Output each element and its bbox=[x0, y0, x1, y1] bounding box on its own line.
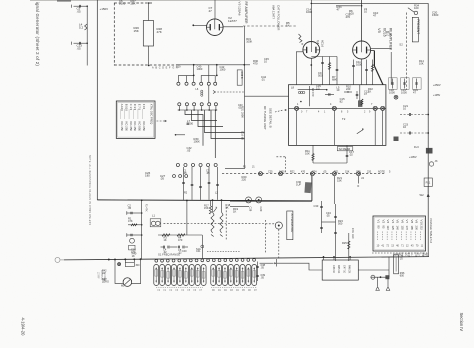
svg-text:100K: 100K bbox=[194, 140, 201, 144]
svg-text:1000: 1000 bbox=[306, 10, 313, 14]
svg-text:470: 470 bbox=[178, 239, 183, 242]
svg-text:C47 10: C47 10 bbox=[342, 265, 345, 274]
svg-text:10: 10 bbox=[403, 125, 407, 129]
svg-text:1000: 1000 bbox=[401, 91, 407, 95]
svg-text:V5: V5 bbox=[377, 28, 382, 34]
svg-text:+250V: +250V bbox=[433, 83, 441, 87]
svg-text:V10: V10 bbox=[419, 220, 423, 226]
svg-text:170: 170 bbox=[405, 226, 409, 231]
svg-text:10K: 10K bbox=[305, 152, 310, 156]
svg-text:J2 RF: J2 RF bbox=[97, 272, 100, 279]
svg-text:125: 125 bbox=[391, 226, 395, 231]
svg-text:1000: 1000 bbox=[389, 91, 395, 95]
svg-text:ignal Generator (Sheet 2 of 2): ignal Generator (Sheet 2 of 2) bbox=[35, 2, 40, 67]
svg-text:47K: 47K bbox=[128, 219, 133, 223]
svg-text:R25: R25 bbox=[342, 241, 347, 245]
svg-text:180: 180 bbox=[145, 174, 150, 178]
svg-text:V9: V9 bbox=[415, 220, 419, 224]
svg-text:GND: GND bbox=[423, 254, 429, 256]
svg-text:E 7 5: E 7 5 bbox=[138, 104, 142, 111]
svg-text:NOTE: ALL RESISTANCE VALUES IN: NOTE: ALL RESISTANCE VALUES IN OHMS UNLE… bbox=[88, 155, 91, 225]
svg-text:220: 220 bbox=[242, 178, 247, 182]
svg-text:RF AMPLIFIER: RF AMPLIFIER bbox=[244, 2, 248, 25]
svg-text:V8A 12AT7: V8A 12AT7 bbox=[272, 5, 276, 19]
svg-text:KC-150: KC-150 bbox=[120, 122, 124, 132]
svg-text:XV2 B: XV2 B bbox=[240, 72, 243, 79]
svg-text:V5: V5 bbox=[396, 220, 400, 224]
svg-text:12AT7: 12AT7 bbox=[228, 19, 237, 23]
svg-text:R1 47K: R1 47K bbox=[145, 204, 147, 212]
svg-text:1K: 1K bbox=[233, 210, 237, 214]
svg-text:.05: .05 bbox=[326, 214, 330, 218]
svg-text:600: 600 bbox=[400, 274, 405, 277]
svg-text:C: C bbox=[159, 66, 161, 69]
svg-text:C25: C25 bbox=[268, 170, 273, 173]
svg-text:V3 12BA6: V3 12BA6 bbox=[238, 2, 242, 16]
svg-text:FL3: FL3 bbox=[414, 145, 419, 149]
svg-text:110: 110 bbox=[386, 226, 390, 231]
svg-text:47: 47 bbox=[337, 8, 341, 12]
svg-text:VOLTAGE TABLE 5-6: VOLTAGE TABLE 5-6 bbox=[429, 218, 433, 244]
svg-text:47K: 47K bbox=[157, 30, 162, 34]
svg-text:10: 10 bbox=[336, 88, 340, 92]
svg-text:1UF: 1UF bbox=[296, 183, 301, 187]
svg-text:220: 220 bbox=[346, 87, 351, 91]
svg-text:V7: V7 bbox=[405, 220, 409, 224]
svg-text:NOTE: NOTE bbox=[378, 170, 385, 173]
svg-text:200: 200 bbox=[415, 226, 419, 231]
svg-text:PRESENT: PRESENT bbox=[416, 19, 420, 34]
svg-text:+105V: +105V bbox=[433, 94, 441, 97]
svg-text:R46 2K: R46 2K bbox=[348, 265, 351, 274]
svg-text:DC: DC bbox=[405, 254, 409, 256]
svg-text:15K: 15K bbox=[337, 179, 342, 183]
svg-text:1K: 1K bbox=[368, 90, 371, 94]
svg-text:100K: 100K bbox=[246, 40, 252, 44]
svg-text:155: 155 bbox=[400, 226, 404, 231]
svg-text:B 510: B 510 bbox=[124, 104, 128, 111]
svg-text:R9 470: R9 470 bbox=[311, 88, 315, 97]
svg-text:Section IV: Section IV bbox=[459, 313, 464, 332]
svg-text:S2: S2 bbox=[399, 43, 403, 47]
svg-text:5.5: 5.5 bbox=[316, 87, 320, 91]
svg-text:T2: T2 bbox=[342, 117, 346, 121]
svg-text:5.2: 5.2 bbox=[79, 25, 83, 29]
svg-text:.01: .01 bbox=[261, 78, 265, 82]
svg-text:1000: 1000 bbox=[197, 67, 203, 71]
svg-text:V2: V2 bbox=[381, 220, 385, 224]
svg-text:4-19/4-20: 4-19/4-20 bbox=[21, 318, 26, 337]
svg-text:D: D bbox=[162, 66, 164, 69]
svg-text:R31 100K: R31 100K bbox=[240, 106, 244, 118]
svg-text:SEE DETAIL B: SEE DETAIL B bbox=[269, 108, 273, 128]
svg-text:15K: 15K bbox=[204, 207, 209, 210]
svg-text:XTAL OSC FREQ: XTAL OSC FREQ bbox=[149, 104, 153, 124]
svg-text:140: 140 bbox=[396, 226, 400, 231]
svg-text:6CL6: 6CL6 bbox=[321, 40, 325, 48]
svg-text:V3: V3 bbox=[386, 220, 390, 224]
svg-text:V4: V4 bbox=[316, 40, 320, 44]
svg-text:C33: C33 bbox=[314, 204, 319, 208]
svg-text:220: 220 bbox=[367, 170, 372, 173]
svg-text:RF TUNING UNIT: RF TUNING UNIT bbox=[263, 106, 267, 130]
svg-text:C46 10: C46 10 bbox=[332, 265, 335, 274]
svg-text:1000: 1000 bbox=[220, 68, 226, 72]
svg-text:1500: 1500 bbox=[432, 13, 439, 17]
svg-text:W2: W2 bbox=[420, 193, 425, 197]
svg-text:+150V: +150V bbox=[100, 7, 109, 11]
svg-text:1K: 1K bbox=[164, 239, 167, 242]
svg-text:F 15: F 15 bbox=[142, 104, 146, 110]
svg-text:C41: C41 bbox=[196, 250, 201, 253]
svg-text:500: 500 bbox=[318, 74, 323, 78]
svg-text:.05: .05 bbox=[160, 177, 164, 181]
svg-text:C29: C29 bbox=[259, 207, 263, 212]
svg-text:470: 470 bbox=[253, 62, 258, 66]
svg-text:V4: V4 bbox=[391, 220, 395, 224]
svg-text:KC-450: KC-450 bbox=[133, 122, 137, 132]
svg-text:C40: C40 bbox=[182, 250, 187, 253]
svg-text:J3: J3 bbox=[435, 159, 438, 163]
svg-text:1000: 1000 bbox=[279, 170, 285, 173]
svg-text:10: 10 bbox=[364, 10, 368, 14]
svg-text:82: 82 bbox=[340, 100, 344, 104]
svg-text:2.2K: 2.2K bbox=[386, 33, 392, 37]
svg-text:ATTENUATOR: ATTENUATOR bbox=[290, 214, 294, 233]
svg-text:C24: C24 bbox=[312, 170, 317, 173]
svg-text:R29: R29 bbox=[176, 66, 181, 69]
svg-text:.05: .05 bbox=[183, 171, 187, 175]
svg-text:KC-250: KC-250 bbox=[124, 122, 128, 132]
svg-text:L1: L1 bbox=[152, 214, 156, 218]
svg-text:.02: .02 bbox=[349, 153, 353, 157]
svg-text:G: G bbox=[172, 66, 174, 69]
svg-text:KC-550: KC-550 bbox=[138, 122, 142, 132]
svg-text:10K: 10K bbox=[419, 62, 424, 66]
svg-text:KC-650: KC-650 bbox=[142, 122, 146, 132]
svg-text:470: 470 bbox=[346, 15, 351, 19]
svg-text:FL1: FL1 bbox=[426, 181, 431, 185]
svg-text:47: 47 bbox=[373, 14, 377, 18]
svg-text:C28: C28 bbox=[249, 207, 253, 212]
svg-text:47: 47 bbox=[209, 9, 213, 13]
svg-text:C23: C23 bbox=[356, 170, 361, 173]
svg-text:.05: .05 bbox=[128, 206, 132, 210]
svg-text:15K: 15K bbox=[134, 29, 139, 33]
svg-text:1000: 1000 bbox=[187, 122, 194, 126]
svg-text:R21: R21 bbox=[334, 170, 339, 173]
svg-text:V1: V1 bbox=[377, 220, 381, 224]
svg-text:.05: .05 bbox=[187, 149, 191, 153]
svg-text:470: 470 bbox=[301, 170, 306, 173]
svg-text:KC-350: KC-350 bbox=[129, 122, 133, 132]
svg-text:.05: .05 bbox=[77, 9, 81, 13]
svg-text:S1 FREQ RANGE: S1 FREQ RANGE bbox=[158, 252, 180, 256]
svg-text:1000: 1000 bbox=[119, 2, 126, 6]
svg-text:V8: V8 bbox=[410, 220, 414, 224]
svg-text:10: 10 bbox=[403, 107, 407, 111]
svg-text:68K: 68K bbox=[332, 78, 337, 82]
svg-text:22K: 22K bbox=[131, 2, 136, 6]
svg-text:ZERO: ZERO bbox=[102, 280, 109, 283]
svg-text:ALL: ALL bbox=[399, 253, 404, 256]
svg-text:C16 68: C16 68 bbox=[241, 131, 245, 140]
svg-text:15K: 15K bbox=[345, 170, 350, 173]
svg-text:.05: .05 bbox=[77, 46, 81, 50]
svg-text:CATH FOLLOWER: CATH FOLLOWER bbox=[277, 5, 281, 30]
svg-text:1K: 1K bbox=[286, 24, 290, 28]
svg-text:TO: TO bbox=[417, 254, 420, 256]
svg-text:1K: 1K bbox=[132, 254, 135, 258]
svg-text:+105V: +105V bbox=[409, 155, 417, 159]
svg-text:500: 500 bbox=[338, 222, 343, 226]
svg-text:215: 215 bbox=[419, 226, 423, 231]
svg-text:R22: R22 bbox=[290, 170, 295, 173]
svg-text:J4: J4 bbox=[361, 176, 364, 180]
svg-text:185: 185 bbox=[410, 226, 414, 231]
svg-text:1K: 1K bbox=[102, 272, 105, 275]
svg-text:100: 100 bbox=[414, 6, 419, 10]
svg-text:.05: .05 bbox=[206, 171, 210, 175]
svg-text:R45 1K: R45 1K bbox=[337, 265, 340, 274]
svg-text:C31 1UF: C31 1UF bbox=[351, 228, 355, 239]
svg-text:300: 300 bbox=[136, 265, 141, 267]
svg-text:V6: V6 bbox=[400, 220, 404, 224]
